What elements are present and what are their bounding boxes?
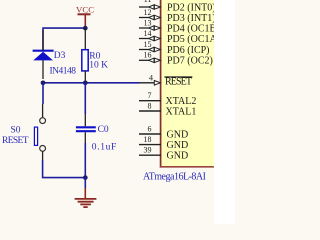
svg-text:D3: D3 bbox=[54, 51, 66, 61]
IC U1 ATmega16L-8AI body bbox=[160, 0, 214, 168]
pin 8 XTAL1 bbox=[139, 102, 161, 112]
svg-text:7: 7 bbox=[148, 91, 152, 100]
pin 4 /RESET bbox=[139, 73, 160, 85]
wire C0 to gnd rail bbox=[84, 143, 86, 178]
capacitor C0 bbox=[76, 83, 96, 143]
resistor R0 bbox=[82, 28, 88, 83]
svg-text:4: 4 bbox=[149, 73, 153, 82]
window edge white area bbox=[214, 0, 235, 224]
svg-text:PD3 (INT1): PD3 (INT1) bbox=[167, 13, 216, 24]
svg-text:6: 6 bbox=[148, 125, 152, 134]
svg-text:RESET: RESET bbox=[2, 136, 29, 146]
pin 14 PD5 bbox=[139, 29, 160, 41]
wire RESET rail bbox=[43, 82, 140, 84]
svg-text:XTAL1: XTAL1 bbox=[166, 106, 197, 117]
pin 16 PD7 bbox=[139, 51, 160, 63]
pin 6 GND bbox=[139, 125, 161, 135]
svg-text:PD6 (ICP): PD6 (ICP) bbox=[167, 45, 210, 56]
pin name RESET (active low) bbox=[164, 76, 192, 87]
svg-text:10 K: 10 K bbox=[89, 61, 108, 71]
svg-text:IN4148: IN4148 bbox=[50, 66, 77, 76]
pin 11 PD2 bbox=[139, 0, 160, 9]
switch S0 bbox=[34, 104, 45, 160]
wire bottom rail bbox=[43, 160, 86, 178]
wire to switch bbox=[42, 83, 44, 104]
svg-text:0.1uF: 0.1uF bbox=[92, 142, 117, 152]
wire top rail bbox=[43, 28, 85, 50]
ground bbox=[75, 178, 97, 208]
svg-text:PD4 (OC1B): PD4 (OC1B) bbox=[167, 23, 220, 34]
svg-text:PD5 (OC1A): PD5 (OC1A) bbox=[167, 34, 220, 45]
svg-text:12: 12 bbox=[144, 8, 152, 17]
svg-text:11: 11 bbox=[144, 0, 152, 4]
svg-text:GND: GND bbox=[167, 129, 189, 140]
pin 12 PD3 bbox=[139, 8, 160, 20]
svg-text:13: 13 bbox=[144, 19, 152, 28]
diode D3 bbox=[33, 30, 54, 79]
svg-text:GND: GND bbox=[167, 151, 189, 162]
svg-text:S0: S0 bbox=[11, 125, 21, 135]
svg-text:8: 8 bbox=[148, 102, 152, 111]
svg-text:RESET: RESET bbox=[165, 76, 192, 87]
pin 39 GND bbox=[139, 146, 161, 156]
svg-text:16: 16 bbox=[144, 51, 152, 60]
svg-text:18: 18 bbox=[144, 135, 152, 144]
node junction R0/C0 bbox=[83, 80, 88, 85]
svg-text:14: 14 bbox=[144, 29, 152, 38]
svg-text:39: 39 bbox=[144, 146, 152, 155]
pin 15 PD6 bbox=[139, 40, 160, 52]
pin 7 XTAL2 bbox=[139, 91, 161, 101]
power port VCC bbox=[76, 4, 94, 27]
svg-text:VCC: VCC bbox=[76, 4, 94, 14]
svg-text:GND: GND bbox=[167, 140, 189, 151]
svg-text:15: 15 bbox=[144, 40, 152, 49]
svg-text:PD2 (INT0): PD2 (INT0) bbox=[167, 2, 216, 13]
node junction gnd bbox=[83, 175, 88, 180]
node junction diode/switch bbox=[41, 80, 46, 85]
svg-text:ATmega16L-8AI: ATmega16L-8AI bbox=[143, 171, 206, 182]
pin 18 GND bbox=[139, 135, 161, 145]
node junction at VCC bbox=[83, 26, 88, 31]
pin 13 PD4 bbox=[139, 19, 160, 31]
svg-text:C0: C0 bbox=[98, 125, 109, 135]
svg-text:PD7 (OC2): PD7 (OC2) bbox=[167, 56, 213, 67]
